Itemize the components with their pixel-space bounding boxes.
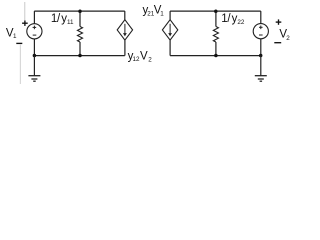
label V1 xyxy=(6,27,17,40)
svg-text:11: 11 xyxy=(67,19,74,26)
minus sign of V1 port xyxy=(16,42,22,44)
svg-text:V: V xyxy=(140,50,148,62)
plus sign of V2 port xyxy=(276,19,282,24)
faint guide line A (above V1 plus) xyxy=(24,2,26,20)
wire: right circuit top xyxy=(170,10,261,12)
label 1/y22 xyxy=(221,13,245,26)
label y12V2 xyxy=(128,50,153,63)
minus sign of V2 port xyxy=(274,42,281,44)
wire: left circuit bottom rail xyxy=(34,55,124,57)
voltage source V2 xyxy=(253,11,268,56)
svg-text:22: 22 xyxy=(237,19,245,26)
svg-text:2: 2 xyxy=(286,35,290,42)
voltage source V1 xyxy=(27,11,42,56)
node dot: resistor 1/y22 top xyxy=(214,10,218,14)
label V2 xyxy=(279,28,290,41)
svg-text:1: 1 xyxy=(13,33,17,40)
resistor 1/y11 xyxy=(77,11,82,56)
wire: right circuit bottom rail xyxy=(170,55,261,57)
node dot: resistor 1/y22 bottom xyxy=(214,54,218,58)
label 1/y11 xyxy=(51,13,74,26)
wire: left circuit top xyxy=(34,10,125,12)
dependent current source y21V1 xyxy=(162,11,177,56)
svg-text:2: 2 xyxy=(148,57,152,64)
node dot: V1 / ground junction xyxy=(33,54,37,58)
node dot: resistor top xyxy=(78,10,82,14)
resistor 1/y22 xyxy=(213,11,218,56)
ground (right) xyxy=(255,56,267,82)
ground (left) xyxy=(28,56,40,82)
node dot: resistor bottom xyxy=(78,54,82,58)
label y21V1 xyxy=(143,4,165,17)
svg-text:12: 12 xyxy=(133,56,141,63)
svg-text:1: 1 xyxy=(160,10,164,17)
plus sign of V1 port xyxy=(22,21,28,26)
dependent current source y12V2 xyxy=(117,11,132,56)
node dot: V2 / ground junction xyxy=(259,54,263,58)
faint guide line B (below V1 minus) xyxy=(19,45,21,84)
